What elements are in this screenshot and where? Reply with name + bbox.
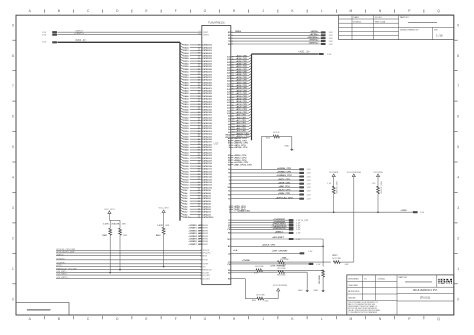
power symbol VCCVID8 (left) xyxy=(329,172,339,187)
pin A24# wire and label xyxy=(227,73,251,77)
svg-text:H: H xyxy=(233,317,236,321)
svg-text:<DEFER#>: <DEFER#> xyxy=(307,36,319,39)
pin HIT# label xyxy=(229,145,246,147)
svg-text:D12#: D12# xyxy=(183,182,189,184)
svg-text:DATAD46#: DATAD46# xyxy=(202,90,212,93)
pin VREF3 label xyxy=(188,233,208,235)
IBM logo xyxy=(437,275,453,287)
pin A16# wire and label xyxy=(227,95,251,99)
svg-text:DATAD58#: DATAD58# xyxy=(202,57,212,60)
svg-text:41: 41 xyxy=(198,124,200,127)
svg-text:67: 67 xyxy=(198,195,200,197)
wire <CK_RST> xyxy=(56,270,209,274)
bus D(63..0) horizontal segment xyxy=(42,39,180,43)
svg-text:D26#: D26# xyxy=(183,144,189,146)
svg-text:DATAD13#: DATAD13# xyxy=(202,178,212,181)
svg-text:NM: NM xyxy=(228,187,231,189)
svg-text:52: 52 xyxy=(198,155,200,157)
wire CPUCLK_CPU 1/2W xyxy=(56,249,210,252)
svg-text:DATAD15#: DATAD15# xyxy=(202,173,212,176)
svg-text:+A13#_CPU: +A13#_CPU xyxy=(236,103,248,106)
pin A26# wire and label xyxy=(227,68,251,72)
pin A27# wire and label xyxy=(227,65,251,69)
svg-text:1.5V: 1.5V xyxy=(307,180,312,182)
svg-text:1/8W: 1/8W xyxy=(165,225,169,227)
pin D21# wire and label xyxy=(180,156,213,160)
pin D32# wire and label xyxy=(180,126,213,130)
svg-text:+VID0: +VID0 xyxy=(400,210,407,212)
svg-text:D20#: D20# xyxy=(183,161,189,163)
svg-text:R1: R1 xyxy=(199,33,201,35)
title block xyxy=(347,275,454,315)
pin ADS# label xyxy=(228,137,247,140)
svg-text:5: 5 xyxy=(457,145,459,149)
svg-text:VTT1K: VTT1K xyxy=(202,260,208,262)
wire <VTT1K> xyxy=(56,257,209,261)
svg-text:D29#: D29# xyxy=(183,136,189,138)
svg-text:+A25#_CPU: +A25#_CPU xyxy=(236,71,248,74)
svg-text:45: 45 xyxy=(198,135,200,138)
pin D59# wire and label xyxy=(180,54,213,58)
svg-text:A6: A6 xyxy=(228,123,230,126)
pin D22# wire and label xyxy=(180,153,213,157)
svg-text:D55#: D55# xyxy=(183,66,189,68)
svg-text:R413 1K_1/8W: R413 1K_1/8W xyxy=(381,181,383,193)
svg-text:R190: R190 xyxy=(254,272,258,274)
svg-text:+THRM: +THRM xyxy=(242,260,250,262)
bottom-left box xyxy=(16,302,69,315)
svg-text:R403: R403 xyxy=(156,234,161,237)
pin D5# wire and label xyxy=(180,199,212,203)
svg-text:1.5V: 1.5V xyxy=(296,233,301,235)
svg-text:DATAD30#: DATAD30# xyxy=(202,133,212,136)
svg-text:D53#: D53# xyxy=(183,72,189,74)
svg-text:DATAD39#: DATAD39# xyxy=(202,108,212,111)
svg-text:<BR0#>: <BR0#> xyxy=(310,30,319,33)
svg-text:14: 14 xyxy=(198,52,200,55)
wire <RST3> xyxy=(56,253,207,257)
svg-text:+LA: +LA xyxy=(233,249,238,252)
svg-text:38: 38 xyxy=(198,117,200,119)
wire CRST1 with terminal xyxy=(42,32,209,37)
svg-text:DATAD41#: DATAD41# xyxy=(202,103,212,106)
wire THERMTRIP# to 1.5V terminal xyxy=(228,226,301,229)
svg-text:VCCCPUIRGB: VCCCPUIRGB xyxy=(347,172,361,174)
svg-text:G: G xyxy=(204,317,207,321)
svg-text:+A21#_CPU: +A21#_CPU xyxy=(236,81,248,84)
pin D13# wire and label xyxy=(180,178,213,182)
pin D54# wire and label xyxy=(180,67,213,71)
svg-text:19: 19 xyxy=(198,66,200,68)
svg-text:63: 63 xyxy=(198,185,200,187)
svg-text:72: 72 xyxy=(198,209,200,211)
wire BR0# to 1.5V terminal xyxy=(228,30,333,34)
svg-text:7: 7 xyxy=(457,84,459,88)
pin D38# wire and label xyxy=(180,110,213,114)
wire <VTT> xyxy=(56,264,206,268)
bus A vertical segment xyxy=(251,54,253,140)
wire SLP# to 1.5V terminal xyxy=(228,190,311,193)
svg-text:DATAD6#: DATAD6# xyxy=(202,197,211,200)
svg-text:C: C xyxy=(87,317,90,321)
svg-text:29: 29 xyxy=(198,93,200,95)
wire loop vertical xyxy=(322,239,324,267)
svg-text:26: 26 xyxy=(198,85,200,87)
svg-text:DATAD47#: DATAD47# xyxy=(202,87,212,90)
resistor R442 xyxy=(245,294,278,302)
svg-text:D54#: D54# xyxy=(183,68,189,71)
pin RS1# label xyxy=(228,158,247,160)
svg-text:1.5V: 1.5V xyxy=(307,191,312,193)
pin DBSY# label xyxy=(228,143,249,145)
svg-text:D14#: D14# xyxy=(183,176,189,179)
wire DRDY# to 1.5V terminal xyxy=(228,42,333,46)
pin A3# wire and label xyxy=(228,130,251,134)
svg-text:D33#: D33# xyxy=(183,126,189,128)
pin A22# wire and label xyxy=(227,79,251,83)
svg-text:07/06/01: 07/06/01 xyxy=(378,279,387,281)
svg-text:VCC_CPU: VCC_CPU xyxy=(159,208,169,210)
svg-text:VREF3: VREF3 xyxy=(202,233,208,235)
svg-text:51: 51 xyxy=(198,152,200,154)
pin A6# wire and label xyxy=(228,122,251,126)
pin D41# wire and label xyxy=(180,102,213,106)
pin D63# wire and label xyxy=(180,43,213,47)
wire THERMDN to 1.5V terminal xyxy=(228,221,301,224)
svg-text:D18#: D18# xyxy=(183,166,189,168)
svg-text:+A7#_CPU: +A7#_CPU xyxy=(236,119,247,122)
svg-text:+A23#_CPU: +A23#_CPU xyxy=(236,76,248,79)
svg-text:B: B xyxy=(58,9,61,13)
svg-text:DATAD16#: DATAD16# xyxy=(202,170,212,173)
pin A8# wire and label xyxy=(228,116,251,120)
svg-text:H: H xyxy=(233,9,236,13)
svg-text:A9: A9 xyxy=(228,115,230,118)
svg-text:A31: A31 xyxy=(227,56,230,59)
svg-text:DATAD51#: DATAD51# xyxy=(202,76,212,79)
svg-text:D27#: D27# xyxy=(183,142,189,144)
wire <CK_RST1> xyxy=(56,273,210,277)
svg-text:+BCLK_CPU: +BCLK_CPU xyxy=(262,244,276,246)
svg-text:APPROVED: APPROVED xyxy=(348,290,360,293)
svg-text:56: 56 xyxy=(198,166,200,168)
svg-text:+HITM#_CPU: +HITM#_CPU xyxy=(234,147,248,149)
ground (GTLREF) xyxy=(284,145,293,151)
svg-text:+A26#_CPU: +A26#_CPU xyxy=(236,68,248,71)
svg-text:39: 39 xyxy=(198,120,200,122)
svg-text:D0#: D0# xyxy=(183,214,188,216)
svg-text:VREF5: VREF5 xyxy=(202,239,208,241)
pin D35# wire and label xyxy=(180,118,213,122)
svg-text:+A30#_CPU: +A30#_CPU xyxy=(236,57,248,60)
svg-text:+A18#_CPU: +A18#_CPU xyxy=(236,89,248,92)
wire <CK_RST2> xyxy=(56,276,210,280)
svg-text:D51#: D51# xyxy=(183,77,189,79)
svg-text:D15#: D15# xyxy=(183,174,189,176)
svg-text:A: A xyxy=(29,9,32,13)
svg-text:DATAD2#: DATAD2# xyxy=(202,208,211,211)
wire PWRGOOD to 1.5V terminal xyxy=(228,228,301,231)
svg-text:42: 42 xyxy=(198,127,200,130)
svg-text:CRST1: CRST1 xyxy=(203,35,209,37)
svg-text:DATAD20#: DATAD20# xyxy=(202,160,212,163)
pin D18# wire and label xyxy=(180,164,213,168)
svg-text:+A29#_CPU: +A29#_CPU xyxy=(236,60,248,63)
pin VID1 label xyxy=(229,209,246,211)
svg-text:07/06/01: 07/06/01 xyxy=(353,21,362,23)
svg-text:D41#: D41# xyxy=(183,103,189,106)
svg-text:D6#: D6# xyxy=(183,198,188,200)
svg-text:D63#: D63# xyxy=(183,45,189,47)
svg-text:D42#: D42# xyxy=(183,100,189,103)
svg-text:D: D xyxy=(116,9,119,13)
wire IGNNE# to 1.5V terminal xyxy=(229,175,312,178)
svg-text:15: 15 xyxy=(198,55,200,57)
pin A11# wire and label xyxy=(227,108,251,112)
svg-text:SM: SM xyxy=(228,164,231,166)
svg-text:+A9#_CPU: +A9#_CPU xyxy=(236,114,247,117)
svg-text:+SMI_CPU#_CPU: +SMI_CPU#_CPU xyxy=(234,164,252,166)
svg-text:A12: A12 xyxy=(227,107,230,110)
svg-text:A10: A10 xyxy=(227,112,230,115)
svg-text:PWRGOOD: PWRGOOD xyxy=(202,270,212,272)
pin D31# wire and label xyxy=(180,129,213,133)
svg-text:1.5V: 1.5V xyxy=(42,41,47,43)
svg-text:D58#: D58# xyxy=(183,58,189,60)
svg-text:D1#: D1# xyxy=(183,212,188,214)
wire DEFER# to 1.5V terminal xyxy=(228,36,333,40)
pin D42# wire and label xyxy=(180,100,213,104)
svg-text:1.5V: 1.5V xyxy=(307,173,312,175)
pin D6# wire and label xyxy=(180,197,212,201)
svg-text:DATAD63#: DATAD63# xyxy=(202,44,212,47)
pin VREF0 label xyxy=(188,225,208,227)
pin D25# wire and label xyxy=(180,145,213,149)
svg-text:D21#: D21# xyxy=(183,158,189,160)
svg-text:D5#: D5# xyxy=(183,201,188,203)
svg-text:<TRDY#>: <TRDY#> xyxy=(309,39,319,42)
svg-text:131LB VERSION-1 PVT: 131LB VERSION-1 PVT xyxy=(413,290,438,292)
pin A18# wire and label xyxy=(227,89,251,93)
svg-text:PW: PW xyxy=(228,229,231,231)
svg-text:B: B xyxy=(58,317,61,321)
pin SMI_CPU# label xyxy=(228,164,252,166)
pin D47# wire and label xyxy=(180,86,213,90)
svg-text:P: P xyxy=(408,317,411,321)
svg-text:10 R 1/8W: 10 R 1/8W xyxy=(332,258,341,260)
svg-text:M: M xyxy=(350,317,353,321)
svg-text:DATAD27#: DATAD27# xyxy=(202,141,212,144)
svg-text:7: 7 xyxy=(12,84,14,88)
svg-text:CK_RST2: CK_RST2 xyxy=(202,278,210,280)
svg-text:1 1K: 1 1K xyxy=(372,183,376,185)
svg-text:D30#: D30# xyxy=(183,134,189,136)
svg-text:D46#: D46# xyxy=(183,90,189,93)
svg-text:DATAD56#: DATAD56# xyxy=(202,63,212,66)
svg-text:DATAD24#: DATAD24# xyxy=(202,149,212,152)
svg-text:D10#: D10# xyxy=(183,187,189,189)
svg-text:0402: 0402 xyxy=(345,264,349,266)
wire BPRI# to 1.5V terminal xyxy=(228,33,333,37)
svg-text:+BCLKSET: +BCLKSET xyxy=(272,237,284,239)
svg-text:28: 28 xyxy=(198,90,200,92)
svg-text:M: M xyxy=(350,9,353,13)
pin D8# wire and label xyxy=(180,191,212,195)
svg-text:+A20M#_CPU: +A20M#_CPU xyxy=(277,167,292,170)
svg-text:REQ0: REQ0 xyxy=(225,135,230,137)
pin VREF7 label xyxy=(188,244,208,246)
pin D37# wire and label xyxy=(180,113,213,117)
pin D36# wire and label xyxy=(180,116,213,120)
svg-text:D3#: D3# xyxy=(183,206,188,208)
pin A10# wire and label xyxy=(227,111,251,115)
pin D9# wire and label xyxy=(180,188,212,192)
svg-text:D8#: D8# xyxy=(183,193,188,195)
svg-text:DATAD7#: DATAD7# xyxy=(202,195,211,198)
wire PROCHOT# to 1.5V terminal xyxy=(228,224,301,227)
svg-text:D36#: D36# xyxy=(183,117,189,119)
pin D3# wire and label xyxy=(180,205,212,209)
svg-text:GND: GND xyxy=(313,290,318,292)
wire A20M# to 1.5V terminal xyxy=(228,167,311,171)
wire FERR# to 1.5V terminal xyxy=(228,172,311,175)
svg-text:1.5V: 1.5V xyxy=(296,229,301,231)
svg-text:DATAD60#: DATAD60# xyxy=(202,52,212,55)
svg-text:DATAD44#: DATAD44# xyxy=(202,95,212,98)
svg-text:DATAD34#: DATAD34# xyxy=(202,122,212,125)
pin D49# wire and label xyxy=(180,81,213,85)
svg-text:64: 64 xyxy=(198,186,200,189)
svg-text:D57#: D57# xyxy=(183,61,189,63)
svg-text:68: 68 xyxy=(198,198,200,200)
svg-text:A18: A18 xyxy=(227,91,230,94)
svg-text:+BSEL1: +BSEL1 xyxy=(275,232,284,234)
svg-text:D2#: D2# xyxy=(183,209,188,211)
svg-text:DATAD37#: DATAD37# xyxy=(202,114,212,117)
svg-text:DATAD1#: DATAD1# xyxy=(202,211,211,214)
svg-text:A3: A3 xyxy=(228,131,230,134)
power symbol VCCCPUIRGB (bottom) xyxy=(273,285,287,299)
svg-text:D19#: D19# xyxy=(183,163,189,165)
svg-text:DATAD4#: DATAD4# xyxy=(202,203,211,206)
pin D28# wire and label xyxy=(180,137,213,141)
svg-text:+SMI#_CPU: +SMI#_CPU xyxy=(278,193,291,195)
svg-text:+A27#_CPU: +A27#_CPU xyxy=(236,65,248,68)
svg-text:E: E xyxy=(145,317,148,321)
svg-text:A: A xyxy=(29,317,32,321)
svg-text:1.5V: 1.5V xyxy=(420,212,425,214)
svg-text:N: N xyxy=(379,9,382,13)
svg-text:D40#: D40# xyxy=(183,106,189,109)
svg-text:DATAD36#: DATAD36# xyxy=(202,116,212,119)
svg-text:10 R 1/8W: 10 R 1/8W xyxy=(280,259,289,261)
svg-text:DC NO: DC NO xyxy=(375,17,382,19)
svg-text:1.5V: 1.5V xyxy=(307,187,312,189)
svg-text:DATAD18#: DATAD18# xyxy=(202,165,212,168)
pin A28# wire and label xyxy=(227,63,251,67)
pin A7# wire and label xyxy=(228,119,251,123)
svg-text:9: 9 xyxy=(12,23,14,27)
svg-text:D44#: D44# xyxy=(183,95,189,98)
svg-text:VREF4: VREF4 xyxy=(202,236,208,238)
pin D39# wire and label xyxy=(180,108,213,112)
svg-text:DATAD23#: DATAD23# xyxy=(202,151,212,154)
svg-text:D32#: D32# xyxy=(183,128,189,130)
svg-text:DATAD32#: DATAD32# xyxy=(202,127,212,130)
svg-text:MO: MO xyxy=(228,239,232,241)
svg-text:1 /16: 1 /16 xyxy=(436,34,443,38)
pin D52# wire and label xyxy=(180,73,213,77)
left ruler numbers and ticks xyxy=(12,23,16,301)
resistor R407 xyxy=(327,181,338,212)
svg-text:61: 61 xyxy=(198,179,200,181)
pin D4# wire and label xyxy=(180,202,212,206)
power symbol VCC_CPU (left pair) xyxy=(104,209,120,225)
revision table xyxy=(339,15,454,40)
svg-text:71: 71 xyxy=(198,206,200,208)
svg-text:<D(63...0)>: <D(63...0)> xyxy=(75,39,87,42)
svg-text:+A4#_CPU: +A4#_CPU xyxy=(236,127,247,130)
svg-text:DATAD29#: DATAD29# xyxy=(202,135,212,138)
svg-text:D50#: D50# xyxy=(183,80,189,82)
svg-text:1.5V: 1.5V xyxy=(296,239,301,241)
pin REQ0# wire and label xyxy=(225,133,251,137)
wire +VID0 with terminal xyxy=(229,210,425,214)
svg-text:THIS DOCUMENT IS THE PROPERTY: THIS DOCUMENT IS THE PROPERTY OF xyxy=(348,302,378,304)
svg-text:IBM: IBM xyxy=(438,277,453,286)
svg-text:8: 8 xyxy=(12,54,14,58)
svg-text:<DRDY#>: <DRDY#> xyxy=(309,42,320,45)
svg-text:D11#: D11# xyxy=(183,185,189,187)
svg-text:17: 17 xyxy=(198,61,200,63)
svg-text:33: 33 xyxy=(198,104,200,106)
svg-text:1 1K: 1 1K xyxy=(327,183,331,185)
pin A20# wire and label xyxy=(227,84,251,88)
svg-text:DATAD28#: DATAD28# xyxy=(202,138,212,141)
svg-text:D22#: D22# xyxy=(183,155,189,157)
svg-text:TUALATIN(1/3): TUALATIN(1/3) xyxy=(208,21,224,24)
svg-text:DATAD33#: DATAD33# xyxy=(202,125,212,128)
svg-text:1.5V: 1.5V xyxy=(329,44,334,46)
svg-text:75: 75 xyxy=(198,217,200,219)
svg-text:DESIGNED: DESIGNED xyxy=(348,279,359,281)
pin D33# wire and label xyxy=(180,124,213,128)
wire CPUCLKCPU_1/2W xyxy=(56,252,211,255)
svg-text:1 4.7K: 1 4.7K xyxy=(114,222,120,225)
svg-text:1.5V: 1.5V xyxy=(329,38,334,40)
svg-text:1.5V: 1.5V xyxy=(329,35,334,37)
svg-text:PART NO: PART NO xyxy=(399,276,408,279)
svg-text:1.5V: 1.5V xyxy=(329,41,334,43)
svg-text:46: 46 xyxy=(198,138,200,141)
pin D60# wire and label xyxy=(180,51,213,55)
svg-text:+A5#_CPU: +A5#_CPU xyxy=(236,124,247,127)
svg-text:+A24#_CPU: +A24#_CPU xyxy=(236,73,248,76)
svg-text:Q: Q xyxy=(437,317,440,321)
svg-text:A7: A7 xyxy=(228,120,230,123)
svg-text:VREF6: VREF6 xyxy=(202,241,208,243)
svg-text:74: 74 xyxy=(198,213,200,216)
pin D43# wire and label xyxy=(180,97,213,101)
svg-text:P: P xyxy=(408,9,411,13)
svg-text:48: 48 xyxy=(198,143,200,146)
svg-text:A28: A28 xyxy=(227,64,230,67)
title block part-no cell xyxy=(397,276,454,301)
svg-text:+SLP#_CPU: +SLP#_CPU xyxy=(278,190,291,192)
svg-text:VREF2: VREF2 xyxy=(202,230,208,232)
svg-text:59: 59 xyxy=(198,174,200,176)
pin D53# wire and label xyxy=(180,70,213,74)
